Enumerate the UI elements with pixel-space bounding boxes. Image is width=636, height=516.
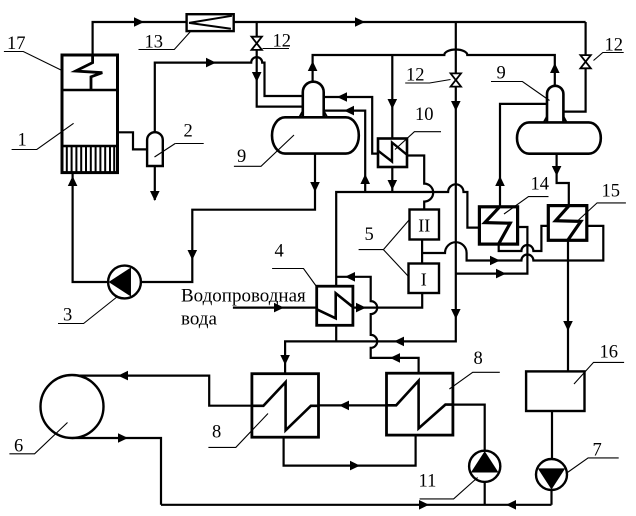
pipe: heater 8 right top to water heater 4 (336, 277, 418, 373)
pipe: deaerator 1 bottom to pump 3 and boiler (73, 154, 315, 282)
deaerator drum 9 (left) (272, 117, 359, 153)
pipe: vent header to cooler 10 (391, 55, 393, 139)
label 1 underline and leader (12, 123, 74, 149)
label 16 underline and leader (574, 362, 624, 384)
stage II box (component 5) (410, 210, 440, 240)
pipe: steam branch through valve 12b (285, 22, 456, 374)
svg-text:II: II (418, 216, 430, 236)
arrow up on condensate riser (360, 174, 370, 184)
arrow down into cooler 10 (388, 99, 398, 109)
pipe: cooler 10 to stage II (407, 156, 433, 210)
boiler 1 body (62, 55, 118, 173)
network heater 8 (left) body (252, 374, 319, 438)
vent cooler 10 coil (378, 143, 406, 162)
water heater 4 coil (317, 293, 353, 318)
pipe: deaerator vent header between columns (313, 50, 555, 88)
arrow down on deaerator 1 outlet (310, 182, 320, 192)
vent cooler 10 body (378, 139, 407, 168)
boiler 1 upper divider (62, 89, 118, 91)
label 12c underline and leader (594, 53, 624, 61)
pipe: water heater 4 drain to heating pipe (335, 325, 337, 341)
arrow on top header mid (right) (355, 17, 365, 27)
boiler burner flash symbol 17 (76, 56, 103, 91)
svg-text:9: 9 (237, 147, 246, 167)
arrow left between heaters 8 (339, 401, 349, 411)
pipe: pump 7 discharge (550, 490, 552, 505)
arrow down on steam branch lower (451, 309, 461, 319)
boiler 1 lower divider (62, 145, 118, 147)
svg-text:16: 16 (600, 343, 619, 363)
arrow right from water heater 4 (356, 303, 366, 313)
pipe: condensate riser to deaerator head lower right port (324, 111, 366, 192)
pipe: steam branch through valve 12c to deaerator 2 head (563, 22, 585, 112)
pipe: pump 11 suction (484, 482, 486, 505)
svg-text:2: 2 (184, 122, 193, 142)
pipe: cooler 10 drain to condensate pipe (391, 167, 393, 192)
pipe: branch to heater 15 right port (422, 226, 603, 261)
label 8 left underline and leader (208, 414, 268, 448)
svg-text:3: 3 (63, 306, 72, 326)
pump 3 (108, 266, 141, 299)
svg-text:5: 5 (365, 225, 374, 245)
deaerator 2 head flare (544, 117, 567, 123)
label 11 underline and leader (420, 478, 478, 499)
steam cooler 13 body (187, 14, 234, 31)
label 12b underline and leader (405, 80, 450, 84)
pump 11 (469, 451, 500, 482)
arrow left into deaerator head lower (344, 106, 354, 116)
svg-text:14: 14 (531, 175, 550, 195)
pipe: heater 14 right port to steam branch (456, 227, 528, 274)
valve 12b (451, 73, 461, 86)
stage I box (component 5) (409, 264, 440, 294)
network heater 8 (right) body (387, 373, 453, 435)
pipe: boiler riser and top steam header (93, 22, 586, 55)
arrow down to pump 3 line (188, 250, 198, 260)
arrow down on heater 15 drain (563, 321, 573, 331)
label 4 underline and leader (272, 269, 316, 287)
arrow right on branch to heater 15 (490, 256, 500, 266)
pump 7 (536, 459, 567, 490)
deaerator head (left column) (303, 82, 324, 118)
boiler 1 grate hatching (67, 146, 114, 173)
steam cooler 13 cone (189, 16, 232, 29)
label 10 underline and leader (395, 132, 441, 150)
arrow left into consumer 6 (118, 371, 128, 381)
svg-text:15: 15 (602, 182, 621, 202)
steam heater 15 coil (556, 206, 581, 240)
arrow down on valve 12a branch (252, 72, 262, 82)
arrow right on separator steam line (206, 58, 216, 68)
arrow down below valve 12b (451, 101, 461, 111)
svg-text:вода: вода (181, 309, 217, 330)
arrow right on tap water inlet (274, 303, 284, 313)
pipe: boiler outlet to separator 2 (118, 132, 148, 149)
arrow right on bottom interconnection (350, 461, 360, 471)
pipe: water heater 4 to stage I (353, 293, 422, 308)
svg-text:11: 11 (419, 472, 437, 492)
svg-text:8: 8 (212, 423, 221, 443)
label 9 right underline and leader (491, 82, 550, 101)
pipe: branch through valve 12a to deaerator head left (257, 22, 303, 107)
label 3 underline and leader (58, 297, 118, 324)
pipe: pump 11 discharge to heater 8 right (453, 405, 485, 451)
arrow left into water heater 4 top (345, 272, 355, 282)
pipe: tank 16 to pump 7 (551, 411, 553, 459)
consumer 6 circle (41, 375, 104, 438)
pipe: stage I to stage II connector (421, 240, 423, 264)
deaerator drum 9 (right) (517, 122, 601, 153)
arrow up on heater 14 outlet (495, 176, 505, 186)
pipe: heater 8 to consumer 6 (72, 376, 252, 406)
label 7 underline and leader (566, 458, 619, 474)
water heater 4 body (317, 286, 353, 325)
svg-text:I: I (421, 270, 427, 290)
valve 12a (252, 37, 262, 50)
deaerator 2 head (right column) (547, 86, 563, 123)
pipe: cooler 10 to deaerator head upper right port (324, 97, 378, 154)
label 14 underline and leader (504, 197, 549, 214)
arrow right on consumer return (118, 433, 128, 443)
label 5 leader to I (383, 250, 408, 277)
label 17 underline and leader (4, 52, 62, 71)
label 5 leader to II (383, 220, 409, 250)
arrow up on right vent riser (550, 63, 560, 73)
network heater 8 (left) coil (252, 382, 318, 430)
arrow down on deaerator 2 outlet (552, 166, 562, 176)
arrow down on separator drain (150, 191, 160, 201)
pipe: separator 2 steam line to deaerator head (155, 57, 303, 133)
pipe: deaerator 2 bottom to heater 15 (557, 154, 569, 206)
arrow left into deaerator head upper (337, 92, 347, 102)
label 8 right underline and leader (449, 372, 499, 389)
pipe: condensate header to heater 14 (336, 184, 479, 287)
arrow down into heater 8 left (280, 355, 290, 365)
arrow left on heater 8 top outlet (390, 353, 400, 363)
pipe: heater 14 drain to heater 15 (499, 226, 549, 251)
steam heater 15 body (548, 206, 587, 241)
steam heater 14 body (479, 207, 517, 244)
arrow up into boiler bottom (68, 176, 78, 186)
steam heater 14 coil (485, 207, 510, 244)
label 13 underline and leader (139, 32, 191, 50)
arrow right toward heater 14 right port (496, 269, 506, 279)
make-up tank 16 (526, 371, 584, 411)
pipe: heater 8 interconnection (319, 404, 387, 406)
arrow right on return header (419, 500, 429, 510)
arrow down on cooler 10 drain (388, 180, 398, 190)
svg-text:10: 10 (415, 105, 434, 125)
label 6 underline and leader (9, 423, 67, 454)
label 2 underline (175, 143, 204, 145)
svg-text:4: 4 (275, 242, 284, 262)
deaerator head left flare (299, 111, 327, 117)
pipe: bottom return header (161, 504, 552, 506)
pipe: heater 8 bottom interconnection (284, 435, 416, 466)
svg-text:8: 8 (474, 349, 483, 369)
label 5 underline and leaders (359, 249, 384, 251)
separator 2 vessel (147, 132, 163, 166)
svg-text:9: 9 (497, 64, 506, 84)
arrow up on left vent riser (308, 61, 318, 71)
pipe: separator 2 drain (154, 166, 156, 200)
arrow left on heating pipe to boiler HX (394, 337, 404, 347)
arrow left on return header (506, 500, 516, 510)
valve 12c (580, 55, 590, 68)
pipe: heater 15 drain to tank 16 (567, 240, 569, 371)
svg-text:Водопроводная: Водопроводная (181, 286, 306, 307)
network heater 8 (right) coil (387, 381, 453, 429)
svg-text:1: 1 (18, 131, 27, 151)
arrow on top header (right) (134, 17, 144, 27)
pipe: tap water inlet (233, 307, 317, 309)
pipe: consumer 6 return (72, 438, 161, 505)
pipe: heater 14 outlet to deaerator 2 head (500, 104, 547, 207)
label 12a underline and leader (263, 48, 290, 50)
label 15 underline and leader (579, 203, 626, 220)
label 2 leader (155, 144, 176, 158)
label 9 left underline and leader (234, 135, 294, 166)
